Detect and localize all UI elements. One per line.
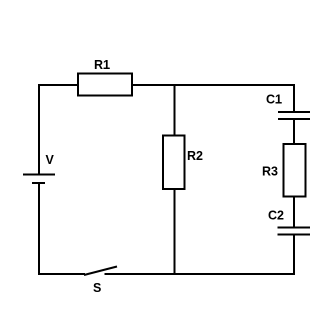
wire right vertical (top corner to C1) [293,84,295,112]
svg-text:C1: C1 [266,93,282,107]
wire C2 to bottom-right corner [293,235,295,276]
capacitor C2 bottom plate [278,234,311,236]
battery V short plate [32,182,45,184]
svg-text:R3: R3 [262,165,278,179]
wire bottom right (switch to bottom-right corner) [105,273,296,275]
wire left vertical lower (battery to bottom) [38,183,40,275]
wire C1 to R3 [293,119,295,145]
svg-text:V: V [46,153,55,167]
resistor R1 [78,74,132,96]
wire left vertical upper (to battery) [38,84,40,175]
switch S blade [84,267,117,276]
wire R2 branch lower [174,189,176,275]
wire top horizontal (R1 to right branch) [131,84,295,86]
svg-text:R1: R1 [94,58,110,72]
wire top-left horizontal (battery top to R1) [38,84,79,86]
wire R2 branch upper [174,85,176,136]
resistor R3 [284,144,306,197]
svg-text:C2: C2 [268,209,284,223]
wire R3 to C2 [293,196,295,228]
wire bottom left (to switch) [38,273,85,275]
svg-text:R2: R2 [187,149,203,163]
battery V long plate [23,174,55,176]
resistor R2 [163,136,185,190]
svg-text:S: S [93,281,101,295]
capacitor C2 top plate [278,227,311,229]
capacitor C1 bottom plate [278,118,310,120]
capacitor C1 top plate [278,111,310,113]
